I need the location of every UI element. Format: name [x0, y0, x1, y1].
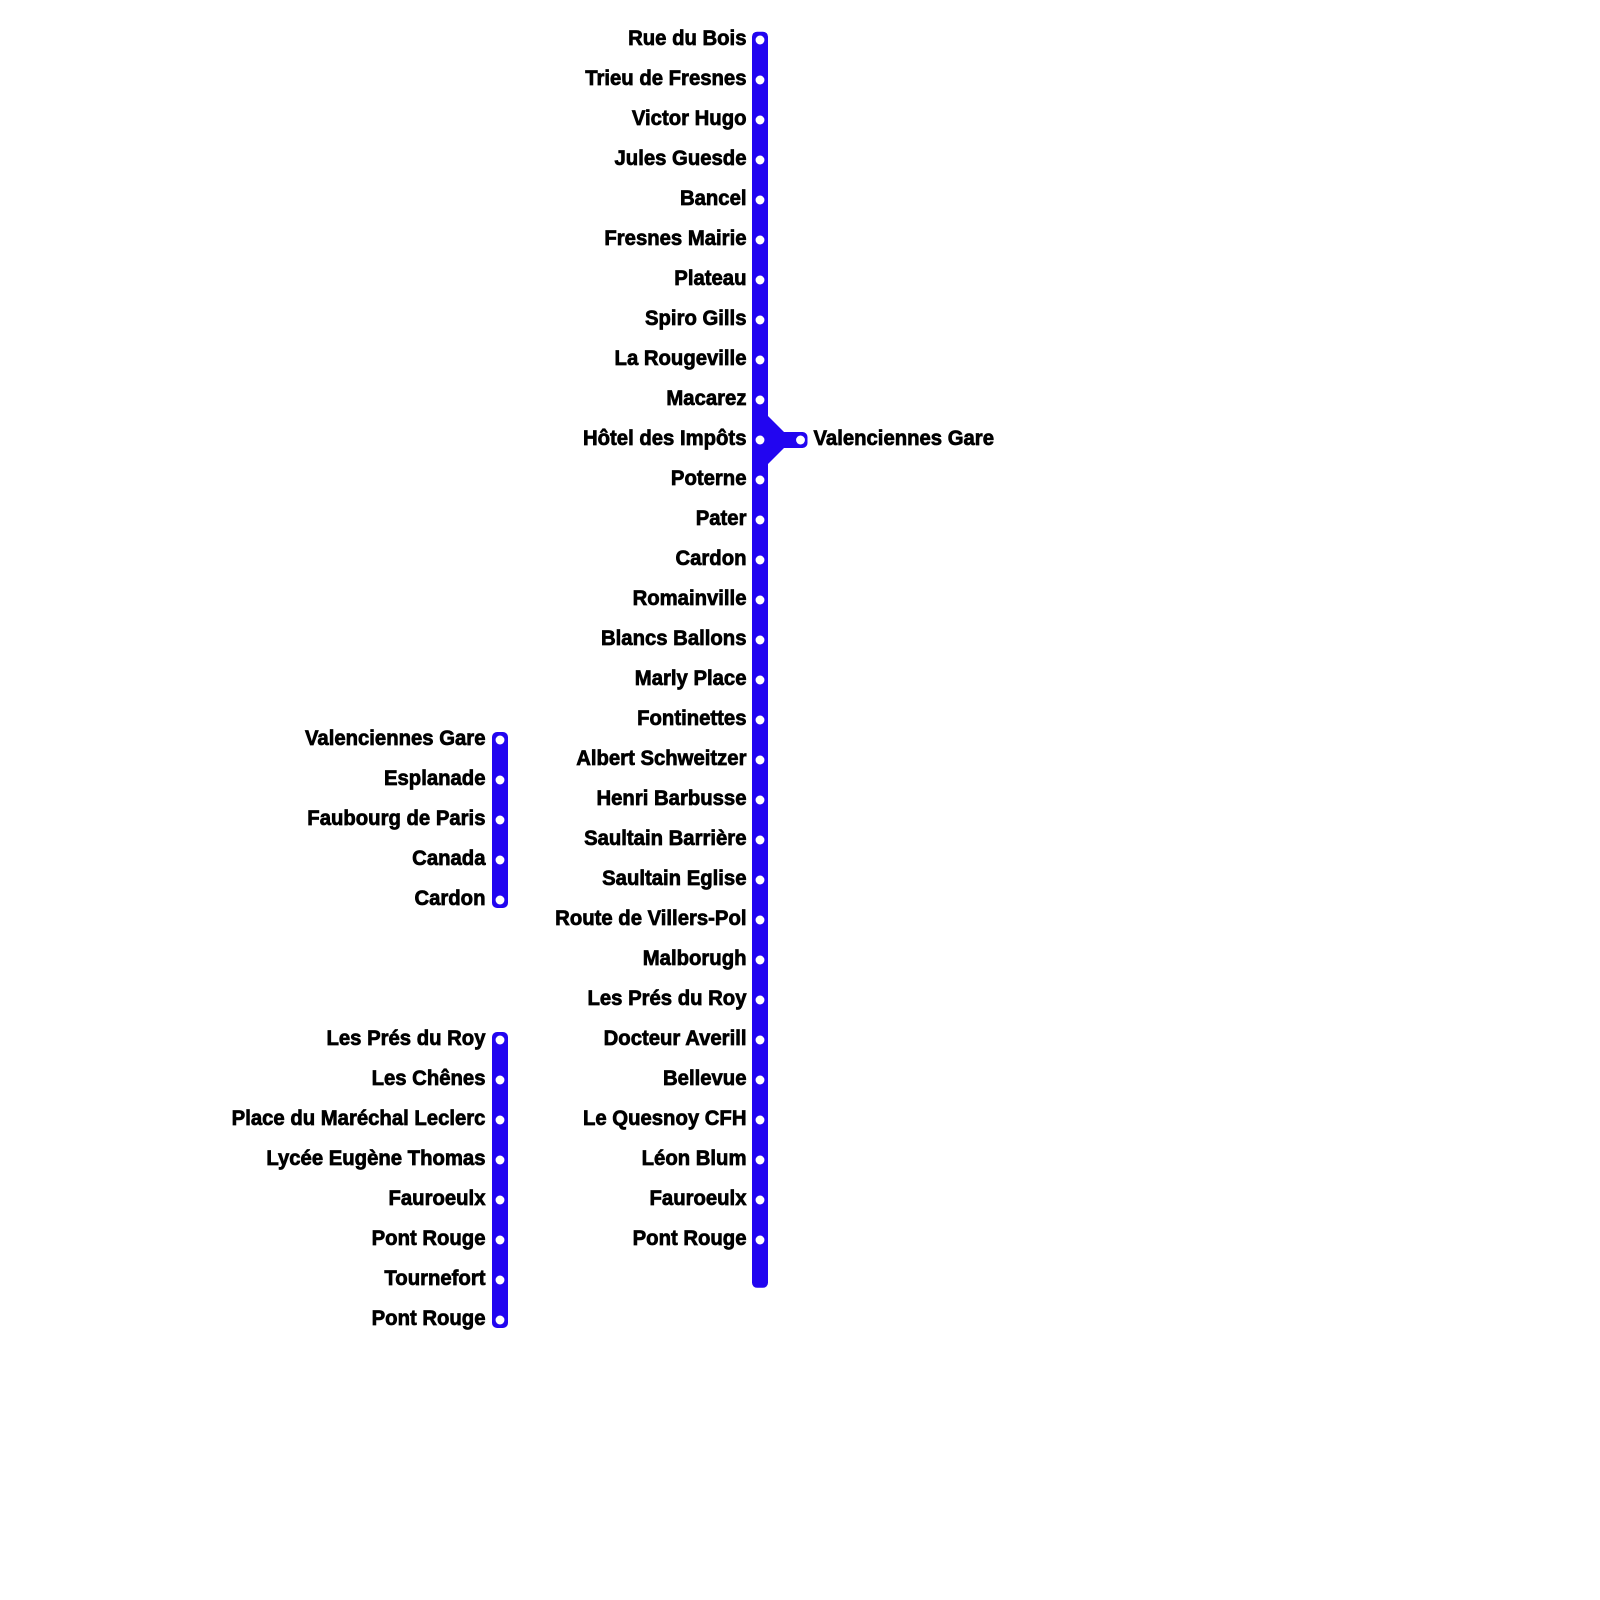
- svg-text:Fauroeulx: Fauroeulx: [389, 1186, 486, 1210]
- station dot: Tournefort (lower): [496, 1276, 505, 1285]
- svg-text:Jules Guesde: Jules Guesde: [615, 146, 747, 170]
- station dot: Cardon (main): [756, 556, 765, 565]
- station dot: Bellevue (main): [756, 1076, 765, 1085]
- station dot: Fauroeulx (main): [756, 1196, 765, 1205]
- station dot: Place du Maréchal Leclerc (lower): [496, 1116, 505, 1125]
- svg-text:Spiro Gills: Spiro Gills: [645, 306, 746, 330]
- station dot: Les Prés du Roy (lower): [496, 1036, 505, 1045]
- svg-text:Poterne: Poterne: [671, 466, 747, 490]
- svg-text:Pater: Pater: [696, 506, 747, 530]
- station dot: Le Quesnoy CFH (main): [756, 1116, 765, 1125]
- svg-text:Docteur Averill: Docteur Averill: [604, 1026, 747, 1050]
- station dot: Valenciennes Gare (middle): [496, 736, 505, 745]
- station dot: Fresnes Mairie (main): [756, 236, 765, 245]
- station dot: Macarez (main): [756, 396, 765, 405]
- line: middle segment (Valenciennes Gare - Cardon): [492, 732, 508, 908]
- svg-text:Le Quesnoy CFH: Le Quesnoy CFH: [583, 1106, 747, 1130]
- station dot: Les Chênes (lower): [496, 1076, 505, 1085]
- svg-text:Fresnes Mairie: Fresnes Mairie: [604, 226, 746, 250]
- station dot: Canada (middle): [496, 856, 505, 865]
- svg-text:Victor Hugo: Victor Hugo: [632, 106, 747, 130]
- station dot: Saultain Eglise (main): [756, 876, 765, 885]
- svg-text:Pont Rouge: Pont Rouge: [372, 1306, 486, 1330]
- svg-text:Les Prés du Roy: Les Prés du Roy: [587, 986, 746, 1010]
- svg-text:Fauroeulx: Fauroeulx: [650, 1186, 747, 1210]
- station dot: Saultain Barrière (main): [756, 836, 765, 845]
- line: lower segment (Les Prés du Roy - Pont Rouge): [492, 1032, 508, 1328]
- station dot: Docteur Averill (main): [756, 1036, 765, 1045]
- svg-text:Place du Maréchal Leclerc: Place du Maréchal Leclerc: [232, 1106, 486, 1130]
- svg-text:La Rougeville: La Rougeville: [615, 346, 747, 370]
- svg-text:Saultain Barrière: Saultain Barrière: [584, 826, 746, 850]
- station dot: Henri Barbusse (main): [756, 796, 765, 805]
- station dot: Lycée Eugène Thomas (lower): [496, 1156, 505, 1165]
- station dot: Bancel (main): [756, 196, 765, 205]
- wire: branch stub to Valenciennes Gare: [768, 432, 808, 448]
- station dot: Jules Guesde (main): [756, 156, 765, 165]
- svg-text:Bellevue: Bellevue: [663, 1066, 746, 1090]
- svg-text:Pont Rouge: Pont Rouge: [633, 1226, 747, 1250]
- station dot: Blancs Ballons (main): [756, 636, 765, 645]
- station dot: Pont Rouge (lower): [496, 1316, 505, 1325]
- svg-text:Plateau: Plateau: [674, 266, 746, 290]
- station dot: Rue du Bois (main): [756, 36, 765, 45]
- svg-text:Albert Schweitzer: Albert Schweitzer: [576, 746, 746, 770]
- svg-text:Macarez: Macarez: [666, 386, 746, 410]
- station dot: Pont Rouge (main): [756, 1236, 765, 1245]
- station dot: La Rougeville (main): [756, 356, 765, 365]
- svg-text:Cardon: Cardon: [414, 886, 485, 910]
- station dot: Trieu de Fresnes (main): [756, 76, 765, 85]
- svg-text:Pont Rouge: Pont Rouge: [372, 1226, 486, 1250]
- svg-text:Saultain Eglise: Saultain Eglise: [602, 866, 746, 890]
- wedge: branch junction at Hôtel des Impôts: [768, 416, 784, 464]
- station dot: Spiro Gills (main): [756, 316, 765, 325]
- svg-text:Tournefort: Tournefort: [384, 1266, 485, 1290]
- station dot: Esplanade (middle): [496, 776, 505, 785]
- station dot: Fontinettes (main): [756, 716, 765, 725]
- svg-text:Malborugh: Malborugh: [643, 946, 747, 970]
- station dot: Les Prés du Roy (main): [756, 996, 765, 1005]
- svg-text:Esplanade: Esplanade: [384, 766, 486, 790]
- station dot: Faubourg de Paris (middle): [496, 816, 505, 825]
- station dot: Marly Place (main): [756, 676, 765, 685]
- svg-text:Marly Place: Marly Place: [635, 666, 747, 690]
- station dot: Malborugh (main): [756, 956, 765, 965]
- svg-text:Canada: Canada: [412, 846, 486, 870]
- svg-text:Lycée Eugène Thomas: Lycée Eugène Thomas: [266, 1146, 485, 1170]
- station dot: Route de Villers-Pol (main): [756, 916, 765, 925]
- svg-text:Rue du Bois: Rue du Bois: [628, 26, 746, 50]
- svg-text:Valenciennes Gare: Valenciennes Gare: [814, 426, 994, 450]
- svg-text:Blancs Ballons: Blancs Ballons: [601, 626, 746, 650]
- station dot: Valenciennes Gare (branch terminus): [796, 436, 805, 445]
- station dot: Fauroeulx (lower): [496, 1196, 505, 1205]
- svg-text:Bancel: Bancel: [680, 186, 747, 210]
- station dot: Albert Schweitzer (main): [756, 756, 765, 765]
- svg-text:Route de Villers-Pol: Route de Villers-Pol: [555, 906, 746, 930]
- station dot: Hôtel des Impôts (main): [756, 436, 765, 445]
- station dot: Victor Hugo (main): [756, 116, 765, 125]
- svg-text:Cardon: Cardon: [675, 546, 746, 570]
- station dot: Pont Rouge (lower): [496, 1236, 505, 1245]
- svg-text:Romainville: Romainville: [633, 586, 747, 610]
- svg-text:Léon Blum: Léon Blum: [642, 1146, 747, 1170]
- station dot: Cardon (middle): [496, 896, 505, 905]
- line: main trunk (Rue du Bois - Pont Rouge): [752, 32, 768, 1288]
- svg-text:Hôtel des Impôts: Hôtel des Impôts: [583, 426, 747, 450]
- svg-text:Les Prés du Roy: Les Prés du Roy: [326, 1026, 485, 1050]
- svg-text:Valenciennes Gare: Valenciennes Gare: [305, 726, 485, 750]
- svg-text:Fontinettes: Fontinettes: [637, 706, 746, 730]
- station dot: Léon Blum (main): [756, 1156, 765, 1165]
- station dot: Poterne (main): [756, 476, 765, 485]
- station dot: Pater (main): [756, 516, 765, 525]
- svg-text:Trieu de Fresnes: Trieu de Fresnes: [585, 66, 746, 90]
- svg-text:Les Chênes: Les Chênes: [372, 1066, 486, 1090]
- svg-text:Faubourg de Paris: Faubourg de Paris: [307, 806, 485, 830]
- station dot: Plateau (main): [756, 276, 765, 285]
- station dot: Romainville (main): [756, 596, 765, 605]
- svg-text:Henri Barbusse: Henri Barbusse: [596, 786, 746, 810]
